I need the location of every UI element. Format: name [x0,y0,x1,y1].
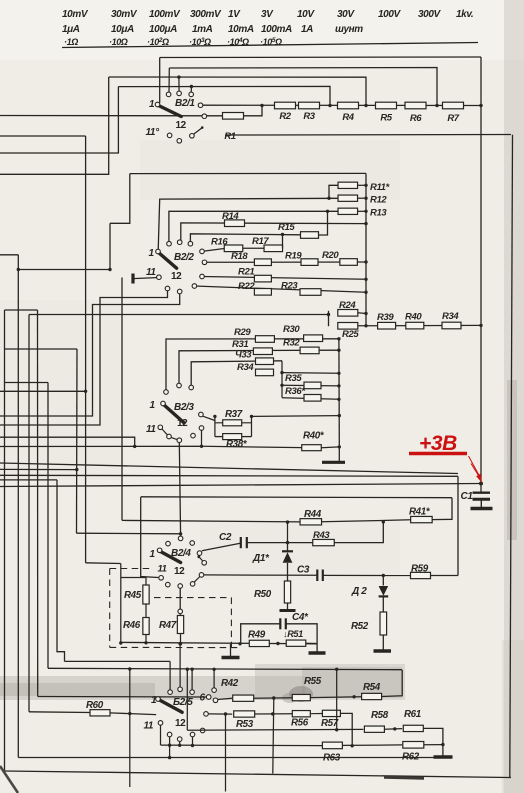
svg-text:R14: R14 [222,211,239,222]
wire R15 up link [319,211,328,235]
wire R21 row [202,277,366,280]
svg-text:R52: R52 [351,621,369,632]
resistor R17 [264,245,283,252]
svg-text:R62: R62 [402,752,420,763]
wire rail to R49 [238,642,241,645]
svg-text:6: 6 [200,693,206,704]
wire R60 to switch [110,713,156,715]
resistor R63 [322,742,342,749]
wire R22 row [194,286,366,292]
wire ground rail y643 [121,642,317,643]
wire R60 row [29,711,91,714]
svg-text:R11*: R11* [370,182,391,193]
resistor R16 [224,245,243,252]
switch B2/1 contact 1 [155,102,160,107]
svg-text:R20: R20 [322,250,339,261]
wire bus L3 [109,77,366,106]
wire R55-R54 [310,696,361,699]
svg-text:R45: R45 [124,590,142,601]
resistor R22 [254,289,271,296]
wire C3 to R59 [323,574,411,576]
junction [364,104,367,107]
svg-text:R25: R25 [342,329,359,340]
resistor R36 [304,395,321,402]
switch B2/1 contact [189,92,194,97]
wire y446 from left [0,445,202,447]
svg-text:R23: R23 [281,281,298,292]
svg-text:R4: R4 [342,112,354,123]
ground B2/3 block [338,447,340,462]
wire left W4 [0,77,109,174]
wire branch y310 [5,309,38,311]
svg-text:C2: C2 [219,532,232,543]
wire R34b row [282,372,339,375]
terminal bar R50 [280,609,296,612]
wire R42 row [218,698,233,699]
resistor R50 vertical [284,581,290,603]
wire R53-R56 [255,713,293,715]
svg-text:100V: 100V [378,9,401,20]
wire R51 right [306,642,317,644]
resistor R38 [223,434,242,440]
svg-text:100μA: 100μA [149,24,177,35]
resistor R53 [234,711,255,717]
resistor R30 [304,335,323,342]
switch B2/3 wiper [164,405,185,423]
wire R47 link [179,614,181,616]
wire C2 line [202,543,241,551]
wire V x37.5 [37,310,39,697]
wire x225 vert [225,714,227,792]
resistor R32 [300,347,319,354]
wire left W3 [0,87,118,153]
svg-text:R21: R21 [238,267,254,278]
resistor R44 [300,519,322,525]
svg-text:100mV: 100mV [149,9,181,20]
ground R51 [316,644,318,653]
resistor R23 [300,289,321,296]
paper mottling [0,0,524,60]
resistor R25 [338,323,358,330]
switch B2/2 contact 1 [156,249,161,254]
wire R18 row [205,261,367,263]
switch B2/2 contact [167,241,172,246]
svg-text:1μA: 1μA [62,24,80,35]
svg-text:R2: R2 [279,111,291,122]
wire left W2 vert [85,136,87,563]
switch B2/2 contact [200,249,205,254]
resistor R3 [299,102,320,109]
switch B2/5 contact 1 [156,697,161,702]
wire R37 top link l [215,422,223,424]
svg-text:1V: 1V [228,9,241,20]
svg-text:1mA: 1mA [192,24,213,35]
resistor R40 [406,322,424,329]
svg-text:·1Ω: ·1Ω [64,37,78,47]
wire R16-R17 [243,247,264,249]
dark bottom segment [384,777,424,778]
wire R53 row [208,713,232,715]
wire B2/4 feed vertical from B2/3 [179,443,180,537]
switch B2/2 contact [188,241,193,246]
wire R46 bottom [145,635,147,643]
diode D1 [287,543,289,551]
switch B2/4 contact [178,536,183,541]
wire contact drops B2/5 top [179,644,181,687]
contact 6 wire end [206,695,211,700]
switch B2/2 contact [202,260,207,265]
wire y463 from left [0,463,458,474]
wire V1 right vertical [365,173,367,325]
wire R36 row [282,398,339,400]
svg-text:R35: R35 [285,373,302,384]
svg-text:R37: R37 [225,409,243,420]
svg-text:R22: R22 [238,281,255,292]
capacitor C2 [240,537,242,548]
resistor R60 [90,710,110,716]
wire B2/2 left route [110,174,130,224]
switch B2/5 contact [190,690,195,695]
junction R49-R51 [276,642,279,645]
wire R63 row [161,744,323,747]
wire box right [457,476,459,575]
wire R54 right up [382,670,403,697]
junction [435,104,438,107]
wire R56-R57 [310,713,322,715]
svg-text:300mV: 300mV [190,9,222,20]
red arrow line b [471,464,481,480]
switch B2/1 contact [167,133,172,138]
resistor R57 [322,710,340,716]
wire V2 vertical [338,339,340,447]
junction [260,104,263,107]
switch B2/3 contact [167,434,172,439]
wire +3B line [0,484,481,487]
wire bus L4 [118,86,330,105]
wire R52 bottom [382,635,384,651]
resistor R55 [292,694,310,700]
switch B2/3 contact [199,426,204,431]
resistor R39 [378,322,396,329]
wire R24R25 left node [328,311,330,326]
svg-text:R57: R57 [321,718,339,729]
switch B2/4 stub contact [197,555,200,558]
svg-text:1: 1 [149,99,155,110]
capacitor C3 [316,570,318,582]
switch B2/4 contact [190,541,195,546]
svg-text:R34: R34 [237,362,254,373]
terminal bar B2/2 pin11 [133,278,156,279]
resistor R20 [340,259,358,266]
svg-text:30mV: 30mV [111,9,138,20]
junction [328,104,331,107]
red underline [409,452,467,455]
switch B2/3 contact [199,412,204,417]
wire y314 to R24 [29,314,329,316]
wire box top [0,475,458,476]
svg-text:R41*: R41* [409,507,431,518]
svg-text:+3B: +3B [419,432,457,455]
svg-text:R63: R63 [323,753,341,764]
svg-text:11: 11 [144,721,154,732]
wire R37 pair right node [251,416,253,436]
switch B2/1 contact stub [190,134,195,139]
resistor R45 vertical [143,585,149,604]
wire y661 [65,660,171,662]
wire R37 row to V2 [214,415,216,417]
svg-text:R43: R43 [313,530,330,541]
svg-text:12: 12 [175,718,186,729]
wire R45 top [145,578,147,586]
switch B2/5 contact [178,687,183,692]
wire R12 right [358,197,367,199]
wire left W2 to R45 area [86,562,121,565]
switch B2/2 contact [177,240,182,245]
wire R59 row from B2/4 [204,574,317,576]
svg-text:R50: R50 [254,589,272,600]
right page edge shadow [504,0,524,793]
wire branch y382 [5,382,49,384]
svg-text:R7: R7 [447,113,459,124]
resistor R61 [403,725,423,731]
wire x129 vert [129,669,131,787]
svg-text:3V: 3V [261,9,274,20]
switch B2/2 contact [192,284,197,289]
resistor R5 [376,102,397,109]
dashed box outline [110,569,240,648]
wire main divider row [203,104,482,106]
resistor R59 [411,572,431,578]
resistor R62 [403,742,424,749]
resistor R19 [301,259,318,266]
svg-text:R39: R39 [377,312,394,323]
wire D1 up to R44 row [287,522,289,543]
header underline [62,43,478,48]
wire R24 right [358,312,366,315]
svg-text:R53: R53 [236,719,254,730]
red arrow line a [469,456,481,478]
wire x110 vert [109,223,111,269]
resistor R24 [338,310,358,317]
wire R62 right [424,744,443,746]
resistor R4 [338,102,359,109]
wire C2 to D1 to R43 [247,542,313,544]
wire R11 right [358,184,367,186]
switch B2/5 contact [177,737,182,742]
switch B2/2 contact [157,275,162,280]
wire y480 from left [0,479,57,481]
svg-text:R29: R29 [234,327,251,338]
wire contact drop [169,661,171,689]
wire B2/1 contactC drop [190,85,193,88]
wire branch y349 [5,348,78,350]
svg-text:C1: C1 [461,491,474,502]
wire y391 from left [0,390,86,392]
wire R50 bottom [287,603,289,610]
wire R63-R62 [342,744,402,747]
wire y437 from left [0,437,135,446]
svg-text:Б2/5: Б2/5 [173,697,193,708]
wire box B2/5 bottom [187,728,363,731]
wire left W5 bottom [18,757,434,759]
resistor R47 vertical [177,616,183,634]
resistor R49 [249,640,269,646]
svg-text:10mV: 10mV [62,9,89,20]
svg-text:30V: 30V [337,9,355,20]
wire R13 line [169,211,338,243]
ground rail mid [230,644,232,657]
svg-text:R54: R54 [363,682,381,693]
svg-text:R34: R34 [442,311,459,322]
svg-text:шунт: шунт [335,24,363,35]
wire bus L1 top [160,56,481,59]
svg-text:R60: R60 [86,700,104,711]
svg-text:B2/2: B2/2 [174,252,194,263]
svg-text:R19: R19 [285,251,302,262]
svg-text:R49: R49 [248,630,266,641]
wire B2/1 contactA drop [168,68,170,94]
switch B2/1 contact [202,114,207,119]
switch B2/5 contact [158,721,163,726]
svg-text:1: 1 [150,549,156,560]
wire B2/2 block top [130,172,366,174]
wire x120 vert to rail [120,564,122,643]
wire R14 line [181,223,366,242]
wire R44 row [122,520,300,522]
junction +3B node [479,482,483,486]
svg-text:R13: R13 [370,208,387,219]
svg-text:10μA: 10μA [111,24,134,35]
svg-text:R30: R30 [283,324,300,335]
switch B2/4 contact [197,551,202,556]
resistor R46 vertical [143,618,149,635]
wire B2/2 lower contact to left edge a [0,291,168,425]
svg-text:10V: 10V [297,9,315,20]
svg-text:12: 12 [176,120,187,131]
svg-text:R40*: R40* [303,431,325,442]
switch B2/3 contact [189,385,194,390]
svg-text:B2/3: B2/3 [174,402,194,413]
wire y533 to B2/4 [77,532,181,535]
resistor R40b [302,445,322,451]
resistor R56 [292,711,310,717]
svg-text:C3: C3 [297,565,310,576]
svg-text:12: 12 [177,418,188,429]
capacitor C1 [480,484,482,493]
resistor R11 [338,182,358,188]
switch B2/4 contact [166,541,171,546]
svg-text:R56: R56 [291,718,309,729]
wire box B2/5 right [336,669,338,730]
svg-text:R58: R58 [371,710,389,721]
wire R57 down to R63 row [340,713,352,745]
wire R44 to R41 [322,520,411,522]
wire R33-R34 vert [281,361,283,398]
wire R31 row [179,350,339,385]
ground bar mid [222,656,240,659]
wire x140 vert pin11 [141,497,159,578]
switch B2/3 contact 1 [161,401,166,406]
svg-text:100mA: 100mA [261,24,292,35]
switch B2/5 wiper [160,700,183,712]
wire y269 link [18,269,110,271]
switch B2/4 wiper [161,552,181,563]
wire lower contact drops [160,725,162,745]
wire R11 left [329,185,338,198]
wire R47 bottom [180,634,182,644]
wire R1 to row [244,106,263,116]
wire R58-R61 [384,728,402,731]
svg-text:R55: R55 [304,676,322,687]
switch B2/3 contact [177,383,182,388]
switch B2/1 contact [177,139,182,144]
resistor R58 [364,726,384,732]
svg-text:R42: R42 [221,678,239,689]
ground R52 [374,649,392,652]
wire left W5 vert [17,255,19,758]
wire V x57 [57,480,65,662]
wire R40b right [321,446,339,449]
resistor R7 [443,102,464,109]
resistor R52 vertical [380,612,387,635]
wire bus L2 [169,68,437,106]
wire R25 row right [358,324,481,326]
resistor R13 [338,208,358,214]
svg-text:11: 11 [146,267,156,278]
svg-text:1: 1 [150,400,156,411]
diode D2 [382,576,384,586]
resistor R33 [256,358,274,365]
resistor R34 [442,322,461,329]
resistor R21 [254,275,271,282]
wire R59 right [431,575,459,577]
resistor R29 [255,336,274,343]
resistor R34b [256,369,274,376]
wire R37 pair left node [214,416,216,436]
wire B2/1 contactB drop [177,75,180,78]
switch B2/2 contact [165,286,170,291]
wire left V x4.5 [4,310,6,771]
ground R62 [442,745,444,757]
svg-text:R44: R44 [304,509,322,520]
resistor R54 [362,693,382,699]
switch B2/3 contact [177,438,182,443]
wire V x77 [76,349,79,533]
svg-text:↓R51: ↓R51 [283,629,303,639]
svg-text:R17: R17 [252,236,269,247]
switch B2/5 contact [168,690,173,695]
switch B2/4 contact 1 [157,548,162,553]
wire R37 left link [203,416,215,420]
wire y497 to R41 [141,496,452,499]
wire R37 bot link [215,436,223,438]
resistor R51 [286,640,306,646]
resistor R14 [225,220,245,227]
wire R15 line [190,234,300,244]
switch B2/5 contact [204,712,209,717]
switch B2/5 contact [200,728,205,733]
svg-text:12: 12 [171,271,182,282]
wire y670 long [48,668,402,669]
switch B2/2 contact [177,289,182,294]
svg-text:R32: R32 [283,338,300,349]
grey scan band [0,676,305,700]
svg-text:·102Ω: ·102Ω [147,37,169,47]
wire y135 corner [480,56,482,58]
resistor R41 [411,516,433,522]
svg-text:1: 1 [149,248,155,259]
resistor R2 [275,102,296,109]
